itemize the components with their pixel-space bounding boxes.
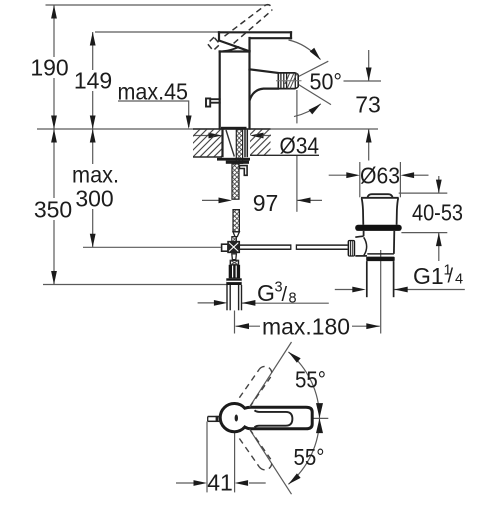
svg-text:97: 97 — [253, 190, 279, 216]
svg-text:350: 350 — [34, 197, 72, 223]
svg-text:G1: G1 — [413, 263, 444, 289]
svg-text:8: 8 — [289, 291, 297, 307]
svg-text:50°: 50° — [310, 69, 343, 95]
svg-text:300: 300 — [75, 186, 113, 212]
svg-text:55°: 55° — [294, 444, 325, 470]
svg-text:G: G — [257, 280, 275, 306]
svg-text:149: 149 — [74, 68, 112, 94]
svg-text:/: / — [282, 284, 288, 306]
svg-text:4: 4 — [455, 272, 463, 288]
svg-text:max.: max. — [72, 162, 119, 188]
svg-text:40-53: 40-53 — [412, 200, 463, 226]
svg-text:max.45: max.45 — [118, 79, 189, 105]
svg-text:/: / — [448, 266, 454, 288]
svg-text:41: 41 — [207, 470, 233, 496]
svg-text:Ø34: Ø34 — [280, 133, 320, 159]
svg-text:73: 73 — [355, 92, 381, 118]
svg-text:190: 190 — [30, 55, 68, 81]
svg-text:55°: 55° — [295, 367, 326, 393]
svg-text:max.180: max.180 — [262, 314, 350, 340]
svg-text:Ø63: Ø63 — [360, 162, 400, 188]
